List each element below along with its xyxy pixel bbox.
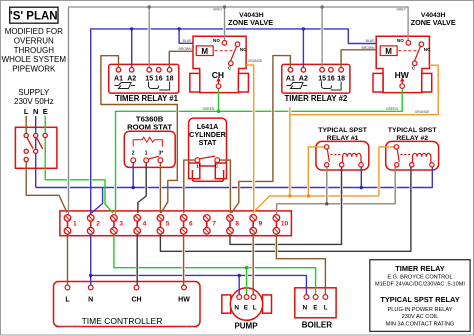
cylinder stat CT1 body — [189, 118, 227, 166]
svg-text:(c) Sample 2008: (c) Sample 2008 — [59, 324, 81, 328]
svg-text:Rev 1a: Rev 1a — [183, 324, 193, 328]
boiler terminals — [304, 295, 328, 300]
wire blue drop to relay U1 pin A2 — [131, 29, 133, 68]
wire supply L brown into isolator — [25, 116, 27, 134]
wire blue room stat pin2 drop — [132, 162, 134, 187]
junction blue bus at A2 U1 — [130, 27, 133, 30]
wire brown relay U2 A1 feed from terminal 8 — [232, 56, 291, 213]
terminal strip numbers — [73, 221, 289, 228]
junction grey bus at x224 — [223, 5, 226, 8]
svg-text:230V AC COIL: 230V AC COIL — [402, 314, 439, 320]
svg-text:N E L: N E L — [303, 304, 330, 311]
svg-text:CH: CH — [131, 297, 141, 304]
terminal strip TB1 box — [60, 211, 292, 236]
wire crossing gaps (verticals pass over buses) — [69, 25, 411, 280]
svg-text:STAT: STAT — [199, 138, 217, 147]
wire brown valve V2 motor to relay U2 pin 18 — [341, 50, 376, 68]
svg-text:GREY: GREY — [213, 8, 223, 12]
notes box — [370, 260, 470, 332]
pump right tab — [263, 295, 272, 313]
wire brown terminal 1 to controller L — [67, 234, 69, 285]
timer relay U2 pins — [288, 68, 343, 73]
svg-text:MIN 3A CONTACT RATING: MIN 3A CONTACT RATING — [386, 321, 455, 327]
zone valve V2 body — [376, 36, 429, 92]
wire black terminal 5 to relay K2 coil — [160, 167, 411, 251]
svg-text:RELAY #1: RELAY #1 — [327, 135, 359, 142]
svg-text:TIMER RELAY: TIMER RELAY — [395, 264, 444, 273]
svg-text:GREY: GREY — [396, 8, 406, 12]
wire brown cylinder stat pin1 to terminal 6 — [184, 160, 196, 213]
junction green bus at valve V1 — [217, 110, 220, 113]
svg-text:15: 15 — [318, 75, 326, 82]
svg-text:6: 6 — [189, 221, 193, 228]
terminal strip TB1 screws — [64, 215, 279, 235]
wire black terminal 4 to controller CH — [136, 234, 138, 285]
svg-text:TYPICAL SPST RELAY: TYPICAL SPST RELAY — [380, 295, 459, 304]
zone valve V2 dashed link — [398, 50, 416, 52]
junction green at pump E — [245, 266, 248, 269]
svg-text:A2: A2 — [299, 75, 308, 82]
svg-text:N E L: N E L — [234, 304, 258, 311]
room stat RT1 resistor R1 — [133, 137, 162, 146]
junction blue at pump N — [238, 274, 241, 277]
wire grey drop to relay U2 pin 15 — [321, 7, 323, 68]
boiler box — [295, 288, 336, 318]
wire blue N lower bus to relays — [36, 167, 433, 188]
zone valve V2 switch — [406, 41, 424, 66]
wire black terminal 8 to relay K1 coil — [230, 167, 342, 244]
svg-text:NC: NC — [424, 47, 431, 52]
svg-text:BOILER: BOILER — [302, 321, 332, 330]
svg-text:BLUE: BLUE — [366, 39, 376, 43]
svg-text:PIPEWORK: PIPEWORK — [12, 65, 56, 74]
time controller box — [54, 282, 201, 327]
svg-text:ZONE VALVE: ZONE VALVE — [411, 18, 456, 27]
zone valve V2 right flange — [422, 73, 432, 92]
SPST relay K2 internals — [394, 145, 434, 167]
timer relay U2 coil symbol — [287, 83, 308, 89]
svg-text:4: 4 — [143, 221, 147, 228]
junction blue bus at A2 U2 — [302, 27, 305, 30]
zone valve V1 motor box — [196, 46, 213, 56]
cylinder stat CT1 left foot — [189, 163, 200, 179]
wire blue V-branch into terminal 2 — [92, 188, 103, 214]
wire blue relay K1 coil N drop — [360, 167, 362, 188]
svg-text:15: 15 — [145, 75, 153, 82]
svg-text:1: 1 — [73, 221, 77, 228]
timer relay U1 pins — [116, 68, 172, 73]
svg-text:NO: NO — [213, 38, 220, 43]
zone valve V1 body — [193, 36, 246, 92]
svg-text:ROOM STAT: ROOM STAT — [127, 122, 172, 131]
wire brown terminal 9 to pump L — [252, 234, 254, 295]
svg-text:RELAY #2: RELAY #2 — [396, 135, 428, 142]
pump left tab — [222, 295, 231, 313]
cylinder stat CT1 lower channel — [192, 170, 223, 181]
svg-text:TYPICAL SPST: TYPICAL SPST — [388, 127, 437, 134]
SPST relay K1 internals — [324, 145, 363, 167]
svg-text:HW: HW — [178, 297, 190, 304]
wire grey drop to valve V1 NO — [224, 7, 226, 41]
svg-text:N: N — [88, 297, 93, 304]
svg-text:ORANGE: ORANGE — [415, 110, 430, 114]
svg-text:8: 8 — [235, 221, 239, 228]
timer relay U2 box — [282, 64, 350, 93]
svg-text:L: L — [65, 297, 70, 304]
svg-text:16: 16 — [155, 75, 163, 82]
wire green pump E drop — [246, 268, 248, 295]
pump body circle — [230, 288, 262, 320]
svg-text:2: 2 — [132, 151, 135, 157]
zone valve V1 switch — [222, 41, 240, 66]
wire blue pump N drop — [238, 275, 240, 294]
svg-text:GREEN: GREEN — [202, 107, 215, 111]
svg-text:18: 18 — [166, 75, 174, 82]
wire green valve V1 earth drop — [218, 88, 220, 111]
svg-text:GREEN: GREEN — [386, 107, 399, 111]
svg-text:A1: A1 — [286, 75, 295, 82]
svg-text:18: 18 — [337, 75, 345, 82]
wire brown terminal 6 to controller HW — [183, 234, 185, 285]
zone valve V1 right flange — [238, 73, 248, 92]
svg-text:E.G. BROYCE CONTROL: E.G. BROYCE CONTROL — [387, 274, 452, 280]
svg-text:ORANGE: ORANGE — [248, 59, 263, 63]
junction orange bus at valve V2 drop — [288, 194, 291, 197]
SPST relay K1 box — [316, 141, 369, 170]
svg-text:2: 2 — [96, 221, 100, 228]
wire grey relay K1 contact drop — [326, 167, 328, 204]
time controller terminals — [65, 285, 186, 290]
svg-text:10: 10 — [281, 221, 289, 228]
svg-text:NO: NO — [397, 38, 404, 43]
svg-text:WHOLE SYSTEM: WHOLE SYSTEM — [2, 55, 67, 64]
wire orange bus to relays and terminal 9 — [254, 196, 379, 212]
wire brown isolator out to terminal 1 — [26, 162, 67, 213]
junction blue at controller N — [89, 274, 92, 277]
wire orange valve V2 aux C feed — [290, 65, 438, 196]
svg-text:TYPICAL SPST: TYPICAL SPST — [318, 127, 367, 134]
wire brown terminal 10 to boiler L — [276, 234, 325, 295]
svg-text:BROWN: BROWN — [179, 47, 193, 51]
svg-text:TIME CONTROLLER: TIME CONTROLLER — [82, 316, 163, 326]
wire blue terminal 2 to controller N and pump boiler N — [90, 234, 92, 285]
junction grey bus at x322 — [320, 5, 323, 8]
isolator switch contacts — [24, 133, 47, 161]
svg-text:3: 3 — [119, 221, 123, 228]
zone valve V1 earth terminal and arrow — [216, 78, 221, 89]
junction orange bus at relay K1 riser — [307, 194, 310, 197]
wire neutral blue top bus — [91, 29, 377, 214]
svg-text:HW: HW — [395, 70, 410, 80]
wire grey bus L-permanent top — [69, 7, 409, 214]
LAYER B: wires — [26, 5, 438, 295]
junction grey bus at relay K1 — [325, 202, 328, 205]
timer relay U1 contact symbols — [149, 82, 170, 91]
wire orange valve V1 aux C to terminal 9 — [246, 65, 254, 213]
svg-text:BLUE: BLUE — [183, 39, 193, 43]
wire brown valve V1 motor to relay U1 pin 18 — [169, 51, 193, 67]
wire black room stat pin1 to terminal 4 — [138, 162, 146, 213]
LAYER A: component box bodies — [15, 36, 438, 326]
wire green earth bus — [116, 88, 403, 214]
SPST relay K2 box — [386, 141, 439, 170]
wire brown room stat pin3 to terminal 5 — [159, 162, 161, 213]
room stat RT1 contacts — [131, 156, 163, 162]
cylinder stat CT1 right foot — [215, 163, 226, 179]
zone valve V2 left flange — [373, 73, 383, 92]
wire blue N feed to pump and boiler — [91, 275, 307, 294]
zone valve V2 motor box — [380, 46, 397, 56]
svg-text:MODIFIED FOR: MODIFIED FOR — [5, 27, 63, 36]
pump terminals — [237, 295, 256, 300]
svg-text:5: 5 — [166, 221, 170, 228]
wire orange riser to relay K1 coil-switch — [308, 147, 325, 196]
'S' PLAN title box — [10, 7, 58, 23]
svg-text:A2: A2 — [127, 75, 136, 82]
svg-text:M1EDF 24VAC/DC/230VAC .5-10MI: M1EDF 24VAC/DC/230VAC .5-10MI — [375, 282, 465, 288]
cylinder stat CT1 contacts — [195, 156, 220, 163]
wire orange riser to relay K2 coil-switch — [379, 147, 396, 196]
svg-text:THROUGH: THROUGH — [14, 46, 55, 55]
wire green E run to terminal 3 — [45, 180, 113, 213]
wire brown relay U1 A1 feed loop to terminal 5 — [101, 56, 177, 213]
wire grey switched bus terminal 10 to relays — [277, 167, 396, 214]
svg-text:BROWN: BROWN — [362, 46, 376, 50]
svg-text:SUPPLY: SUPPLY — [18, 88, 50, 97]
zone valve V2 earth terminal and arrow — [400, 78, 405, 89]
room stat RT1 box — [124, 131, 175, 167]
wire blue drop to relay U2 pin A2 — [302, 29, 304, 68]
timer relay U1 coil symbol — [115, 83, 136, 89]
isolator switch box — [15, 127, 57, 168]
wire supply N blue through isolator — [35, 116, 37, 188]
svg-text:PUMP: PUMP — [234, 322, 258, 331]
junction blue bus at room stat — [132, 186, 135, 189]
wire grey drop to relay U1 pin 15 — [148, 7, 150, 68]
svg-text:ZONE VALVE: ZONE VALVE — [228, 18, 273, 27]
svg-text:230V 50Hz: 230V 50Hz — [14, 97, 54, 106]
timer relay U2 contact symbols — [322, 82, 342, 91]
svg-text:L: L — [24, 107, 29, 116]
svg-text:PLUG-IN POWER RELAY: PLUG-IN POWER RELAY — [388, 307, 453, 313]
svg-text:E: E — [43, 107, 48, 116]
wire supply E green through isolator — [44, 116, 46, 180]
wire green terminal 3 to pump and boiler earth — [114, 234, 316, 295]
svg-text:3*: 3* — [159, 151, 164, 157]
svg-text:TIMER RELAY #2: TIMER RELAY #2 — [284, 94, 347, 103]
zone valve V1 left flange — [190, 73, 200, 92]
svg-text:NC: NC — [240, 47, 247, 52]
svg-text:16: 16 — [327, 75, 335, 82]
svg-text:M: M — [201, 47, 208, 56]
zone valve V1 dashed link — [215, 50, 233, 52]
svg-text:M: M — [385, 47, 392, 56]
svg-text:A1: A1 — [114, 75, 123, 82]
junction blue bus at relay K1 — [360, 186, 363, 189]
wire colour tags — [179, 8, 431, 115]
junction blue bus at valve V1 — [177, 27, 180, 30]
svg-text:7: 7 — [212, 221, 216, 228]
svg-text:1: 1 — [145, 151, 148, 157]
svg-text:OVERRUN: OVERRUN — [14, 36, 54, 45]
wire blue branch to valve V1 motor — [179, 29, 193, 43]
timer relay U1 box — [109, 64, 179, 93]
svg-text:9: 9 — [259, 221, 263, 228]
svg-text:CH: CH — [212, 70, 224, 80]
svg-text:1*: 1* — [196, 164, 200, 169]
svg-text:TIMER RELAY #1: TIMER RELAY #1 — [115, 94, 178, 103]
junction grey bus at x149 — [148, 5, 151, 8]
wire brown cylinder stat C to terminal 8 — [219, 160, 230, 213]
svg-text:N: N — [33, 107, 38, 116]
svg-text:'S' PLAN: 'S' PLAN — [10, 10, 58, 22]
